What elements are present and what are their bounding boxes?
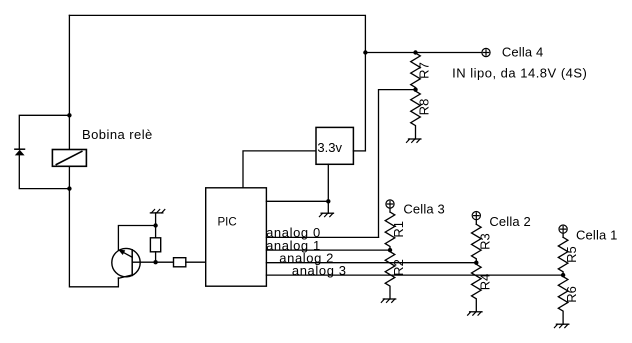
ground chassis below 3.3v bbox=[319, 201, 333, 216]
node R7 R8 junction bbox=[413, 87, 417, 91]
ground below R4 bbox=[468, 312, 482, 315]
svg-text:Cella 3: Cella 3 bbox=[403, 201, 445, 216]
regulator 3.3v U2 bbox=[316, 127, 353, 164]
wire diode branch upper bbox=[19, 115, 69, 149]
svg-text:R1: R1 bbox=[391, 221, 406, 238]
resistor base-emitter (box) bbox=[150, 226, 160, 263]
wire to Cella 4 terminal bbox=[365, 52, 482, 54]
node junction diode bottom bbox=[67, 186, 71, 190]
wire left vertical from top rail to relay coil bbox=[68, 15, 70, 149]
wire PIC ground bbox=[266, 200, 328, 202]
wire junction to analog0 bbox=[379, 90, 416, 238]
svg-text:Cella 1: Cella 1 bbox=[576, 227, 618, 242]
op-amp PIC box U1 bbox=[206, 188, 267, 286]
wire base bbox=[132, 261, 173, 263]
node R7 top bbox=[413, 50, 417, 54]
chassis symbol above emitter resistor bbox=[150, 210, 164, 226]
svg-text:R6: R6 bbox=[564, 286, 579, 303]
svg-text:Bobina relè: Bobina relè bbox=[82, 127, 153, 142]
resistor R7 bbox=[411, 53, 421, 90]
resistor R8 bbox=[411, 91, 421, 139]
svg-text:IN lipo, da 14.8V (4S): IN lipo, da 14.8V (4S) bbox=[452, 65, 587, 80]
wire top rail from relay branch to 3.3v input bbox=[69, 15, 365, 151]
transistor Q1 bbox=[112, 248, 140, 278]
svg-text:Cella 4: Cella 4 bbox=[502, 45, 544, 60]
node emitter junction bbox=[153, 223, 157, 227]
wire base resistor to PIC bbox=[186, 261, 206, 263]
terminal Cella 1 bbox=[559, 225, 567, 233]
wire analog2 bbox=[266, 262, 476, 264]
resistor R4 bbox=[471, 264, 481, 312]
wire emitter up and right bbox=[118, 226, 155, 251]
wire analog3 bbox=[266, 274, 563, 276]
terminal Cella 4 bbox=[482, 48, 490, 56]
wire diode branch lower bbox=[19, 155, 69, 188]
svg-text:PIC: PIC bbox=[218, 216, 237, 228]
wire terminal2 lead bbox=[475, 220, 477, 225]
resistor base series (box) bbox=[174, 258, 186, 267]
node rail to cella4 bbox=[363, 50, 367, 54]
terminal Cella 2 bbox=[472, 212, 480, 220]
resistor R2 bbox=[385, 252, 395, 299]
wire PIC top supply from 3.3v bbox=[243, 151, 316, 188]
node junction diode top bbox=[67, 113, 71, 117]
wire terminal3 lead bbox=[389, 208, 391, 212]
svg-text:R2: R2 bbox=[391, 259, 406, 276]
svg-text:3.3v: 3.3v bbox=[317, 140, 342, 155]
diode D1 flyback bbox=[15, 149, 25, 155]
relay coil K1 (Bobina relè) bbox=[52, 150, 86, 167]
wire terminal1 lead bbox=[562, 233, 564, 237]
ground below R6 bbox=[554, 324, 568, 327]
svg-text:Cella 2: Cella 2 bbox=[489, 214, 531, 229]
terminal Cella 3 bbox=[386, 200, 394, 208]
svg-text:R5: R5 bbox=[564, 246, 579, 263]
resistor R6 bbox=[558, 277, 568, 325]
wire analog0 bbox=[266, 236, 378, 238]
resistor R5 bbox=[558, 237, 568, 275]
ground below R2 bbox=[381, 299, 395, 302]
resistor R1 bbox=[385, 212, 395, 250]
svg-text:analog 3: analog 3 bbox=[292, 263, 347, 278]
node analog2 junction bbox=[474, 261, 478, 265]
resistor R3 bbox=[471, 224, 481, 262]
svg-text:R3: R3 bbox=[477, 233, 492, 250]
ground below R8 bbox=[407, 139, 421, 142]
svg-text:R8: R8 bbox=[417, 99, 432, 116]
node base junction bbox=[153, 260, 157, 264]
wire relay bottom to transistor collector bbox=[69, 166, 118, 286]
node ground junction bbox=[326, 199, 330, 203]
svg-text:R4: R4 bbox=[477, 274, 492, 291]
node analog3 junction bbox=[561, 273, 565, 277]
node analog1 junction bbox=[388, 248, 392, 252]
wire 3.3v input from rail bbox=[353, 150, 365, 152]
wire analog1 bbox=[266, 249, 390, 251]
svg-text:R7: R7 bbox=[417, 62, 432, 79]
wire 3.3v ground leg bbox=[327, 164, 329, 201]
